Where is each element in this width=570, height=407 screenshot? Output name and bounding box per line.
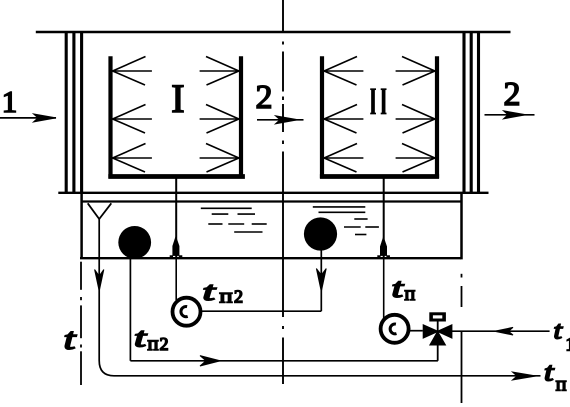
sensor 2 inner curl (390, 324, 396, 334)
left lower dash-dot (80, 262, 82, 385)
valve stem down (437, 345, 439, 361)
sensing line down to sensor 1 (175, 258, 177, 300)
chamber II nozzles left column (324, 57, 363, 173)
control line B pump1 to valve (130, 360, 438, 362)
svg-text:1: 1 (566, 335, 570, 356)
svg-text:t: t (554, 318, 564, 345)
arrow 2 (outlet) (485, 111, 535, 119)
svg-text:2: 2 (504, 76, 521, 113)
chamber II walls (320, 56, 439, 178)
chamber II suction pipe (383, 178, 385, 258)
svg-text:2: 2 (234, 287, 243, 307)
svg-text:I: I (171, 76, 184, 121)
up arrow on chamber II pipe (378, 237, 390, 257)
down arrow on drain (95, 270, 104, 292)
floor line (58, 192, 488, 194)
pump 2 sensing line down (320, 251, 322, 312)
right wall hatch lines (464, 33, 479, 192)
bath bottom line (80, 257, 461, 259)
water level marks chamber I bath (201, 208, 267, 232)
bath right wall (460, 193, 463, 260)
svg-text:2: 2 (256, 79, 273, 116)
svg-text:п: п (405, 283, 416, 305)
svg-text:t: t (64, 321, 78, 356)
valve: actuator box (429, 312, 446, 331)
bath left wall (80, 192, 83, 259)
svg-text:t: t (544, 358, 555, 387)
left wall hatch lines (66, 33, 81, 192)
arrow 2 (between chambers) (257, 116, 304, 124)
svg-text:п: п (556, 374, 567, 396)
sensor 2 circle (381, 315, 409, 343)
sensing line down to sensor 2 (383, 258, 385, 319)
down arrow on pump2 line (316, 269, 326, 292)
svg-text:2: 2 (160, 334, 169, 354)
funnel (88, 203, 112, 219)
svg-text:1: 1 (2, 84, 18, 119)
t1 supply line (452, 330, 550, 332)
arrow 1 (inlet) (0, 114, 56, 122)
pump 2 (black circle) (304, 217, 337, 250)
chamber II nozzles right column (396, 57, 435, 173)
svg-text:п: п (148, 333, 159, 355)
sensor2 to valve line (408, 330, 423, 332)
svg-text:п: п (220, 286, 233, 308)
center axis line (282, 0, 284, 384)
bath top line (81, 200, 461, 202)
label II (373, 90, 384, 114)
chamber I nozzles right column (200, 57, 239, 173)
chamber I nozzles left column (113, 57, 152, 173)
pump 1 outlet line (129, 259, 131, 361)
valve body: three triangles (423, 325, 438, 338)
sensor 1 inner curl (181, 306, 188, 316)
top cover line (36, 31, 511, 34)
arrow right on t_n output line (513, 372, 537, 380)
svg-text:t: t (203, 277, 217, 306)
left arrow on t1 line (495, 327, 514, 335)
chamber I walls (108, 56, 245, 178)
right arrow on line B (200, 356, 221, 366)
sensor 1 circle (173, 298, 201, 326)
water level marks chamber II bath (313, 207, 379, 235)
pump 1 (black circle) (118, 226, 151, 259)
funnel drain pipe with elbow (99, 219, 540, 376)
sensor1 to pump2 line (201, 310, 322, 312)
right wall lower dash-dot (461, 274, 463, 403)
chamber I suction pipe (175, 178, 177, 258)
up arrow on chamber I pipe (170, 237, 182, 258)
